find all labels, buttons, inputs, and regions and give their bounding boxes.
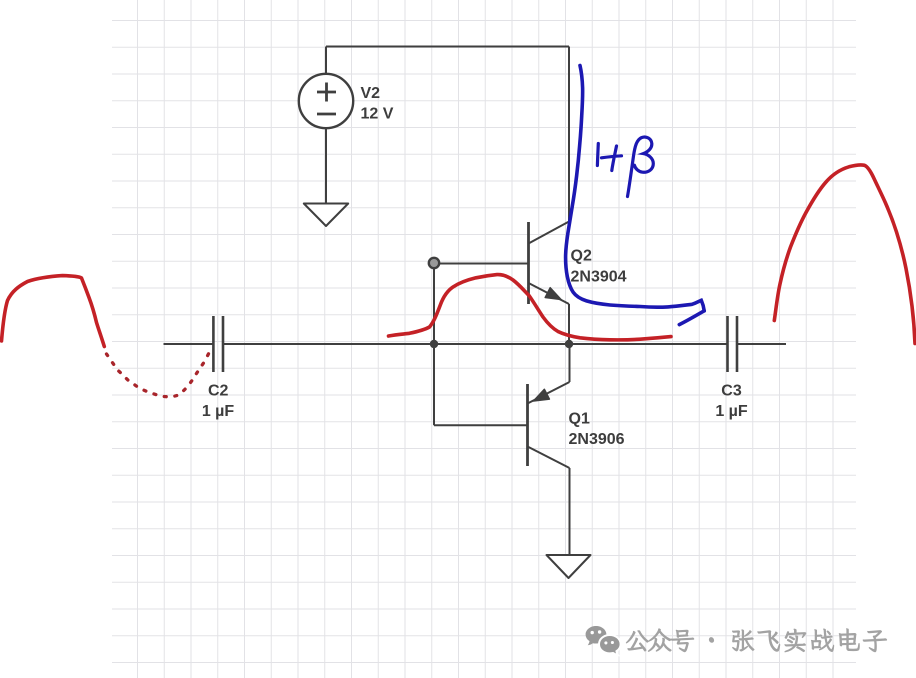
wire base bus vertical [433, 263, 435, 425]
wire V2 top lead [325, 47, 327, 75]
annotation red output sine [774, 165, 915, 343]
label C3 1uF [715, 383, 748, 420]
wire Q2 base [434, 263, 529, 265]
annotation blue text plus [602, 146, 622, 171]
junction node output rail [565, 340, 573, 348]
annotation red collector waveform [389, 275, 672, 340]
watermark wechat icon [586, 626, 621, 655]
wire mid rail [223, 343, 727, 345]
capacitor C2 [213, 316, 223, 372]
svg-text:Q1: Q1 [569, 411, 590, 428]
annotation blue text beta [628, 137, 654, 197]
wire output rail [738, 343, 787, 345]
label Q1 2N3906 [569, 411, 625, 449]
annotation blue current path [566, 66, 705, 311]
svg-text:1 µF: 1 µF [715, 403, 748, 420]
label V2 12 V [361, 85, 394, 123]
annotation red input sine dashed [107, 353, 210, 397]
capacitor C3 [728, 316, 738, 372]
wire V2 to ground [325, 128, 327, 203]
wire Q1 base [434, 424, 528, 426]
ground G2 [547, 555, 591, 578]
wire output node to Q1 emitter [569, 344, 571, 382]
grid left boundary mask [109, 0, 112, 678]
svg-text:2N3906: 2N3906 [569, 431, 625, 448]
svg-text:2N3904: 2N3904 [571, 269, 627, 286]
wire top rail to Q2 collector [568, 47, 570, 222]
node base input dot [429, 258, 439, 268]
ground G1 [304, 204, 348, 227]
wire Q1 collector to ground [569, 468, 571, 555]
annotation red input sine solid [2, 276, 105, 347]
annotation blue arrow lower barb [679, 311, 704, 325]
svg-text:C3: C3 [721, 383, 742, 400]
voltage source V2 [299, 74, 353, 128]
annotation blue text 1 [596, 144, 600, 166]
wire input rail [164, 343, 214, 345]
svg-text:12 V: 12 V [361, 106, 394, 123]
junction node input rail [430, 340, 438, 348]
transistor Q2 emitter arrow [545, 288, 561, 300]
watermark text [626, 629, 887, 652]
svg-text:1 µF: 1 µF [202, 403, 235, 420]
svg-text:Q2: Q2 [571, 248, 592, 265]
wire Q2 emitter to output node [568, 304, 570, 344]
transistor Q1 emitter arrow [534, 389, 550, 401]
transistor Q1 2N3906 [528, 382, 570, 468]
transistor Q2 2N3904 [529, 222, 570, 305]
label Q2 2N3904 [571, 248, 627, 286]
svg-text:C2: C2 [208, 383, 229, 400]
svg-text:V2: V2 [361, 85, 381, 102]
label C2 1uF [202, 383, 235, 421]
wire top rail [326, 46, 569, 48]
